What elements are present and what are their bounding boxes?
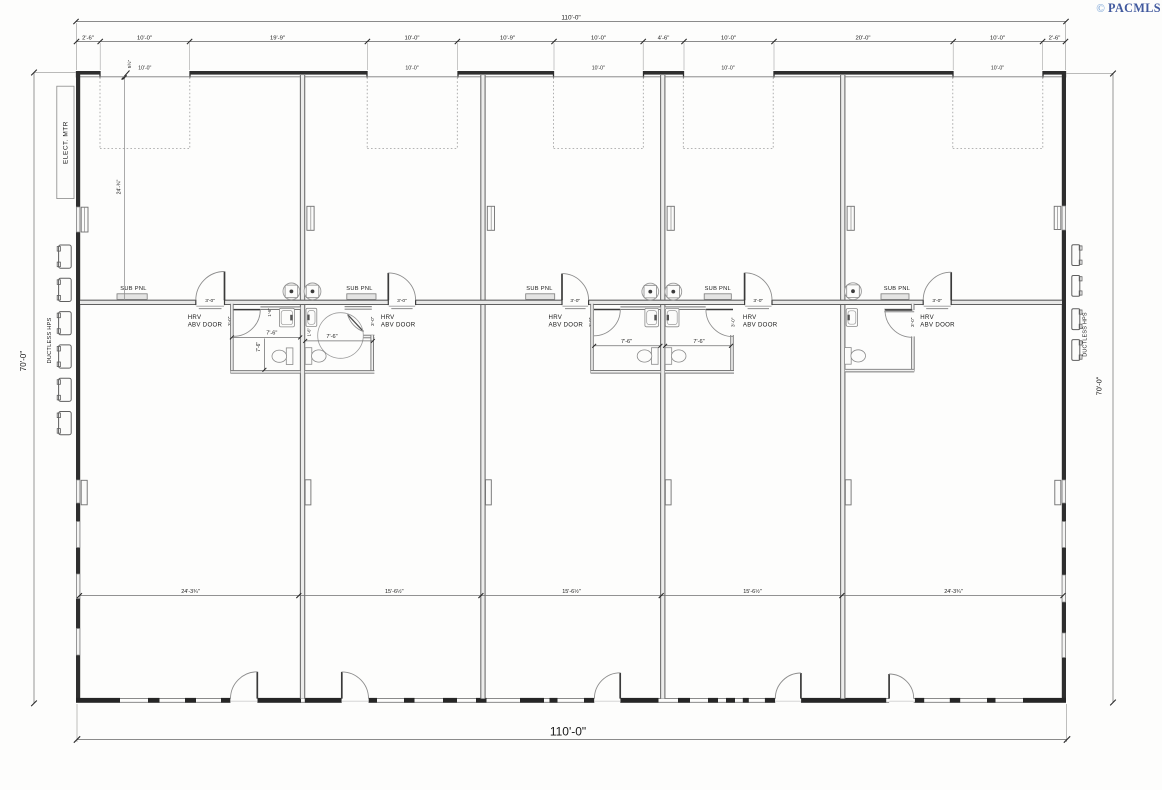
bathroom 5 door [885,310,912,337]
rotated 3'-0" labels at bathroom door jambs [227,316,915,327]
interior unit width labels [181,588,963,595]
svg-text:10'-0": 10'-0" [137,35,152,41]
svg-text:SUB PNL: SUB PNL [346,286,372,292]
svg-text:10'-0": 10'-0" [405,66,418,72]
right dimension line 70'-0" [1066,71,1116,706]
svg-text:ELECT. MTR: ELECT. MTR [63,121,70,164]
svg-text:15'-6½": 15'-6½" [562,588,581,595]
left wall interior panel marker upper [81,207,88,232]
svg-text:HRV: HRV [743,314,757,321]
svg-text:10'-0": 10'-0" [991,66,1004,72]
bathroom 2 door open leaf [348,314,364,331]
bathroom 1 height dimension 7'-6" [256,339,266,372]
svg-text:5½": 5½" [126,59,133,68]
bathroom 4 toilet [665,348,686,365]
interior unit width dimension line [77,593,1065,598]
bathroom block B outline unit3 side [591,304,661,373]
svg-text:ABV DOOR: ABV DOOR [549,322,584,329]
svg-text:3'-0": 3'-0" [570,298,580,304]
unit entry doors with swing arcs [196,272,951,301]
svg-text:3'-0": 3'-0" [731,317,736,327]
overall top dimension line 110'-0" [73,15,1068,25]
left wall window markers [76,207,79,655]
svg-text:PACMLS: PACMLS [1108,1,1161,15]
bathroom 5 toilet [845,348,866,365]
svg-text:10'-0": 10'-0" [592,66,605,72]
svg-text:SUB PNL: SUB PNL [526,286,552,292]
bathroom 3 door [594,310,620,336]
bathroom 4 width dimension 7'-6" [663,339,733,348]
recess width labels 10'-0" [138,66,1004,72]
top dimension extension line right [1065,23,1067,70]
svg-text:ABV DOOR: ABV DOOR [188,322,223,329]
svg-text:HRV: HRV [381,314,395,321]
svg-text:3'-0": 3'-0" [370,316,375,326]
svg-text:DUCTLESS HPS: DUCTLESS HPS [1082,312,1088,357]
5-1/2 inch wall offset label [122,59,133,79]
svg-text:SUB PNL: SUB PNL [884,286,910,292]
HRV ABV DOOR labels [188,314,955,329]
bottom wall door opening thresholds [231,698,914,703]
svg-text:3'-0": 3'-0" [932,298,942,304]
entry door sills [196,306,950,308]
bathroom 2 width dimension 7'-6" [303,334,375,343]
top segmented dimension line [74,39,1068,44]
svg-text:4'-6": 4'-6" [658,35,670,41]
svg-text:1'-6": 1'-6" [307,328,312,337]
ductless heat pumps left [57,245,71,435]
right wall interior panel marker lower [1055,480,1061,505]
entry door 3'-0" labels [205,298,942,304]
top dimension extension ticks to wall [100,43,1042,70]
bathroom block A outline unit2 side [305,307,375,374]
recessed entry alcoves dashed outlines [100,78,1043,149]
svg-text:70'-0": 70'-0" [1095,376,1104,395]
bathroom block A outline unit1 side [231,304,301,374]
bathroom 3 width dimension 7'-6" [592,339,662,348]
svg-text:19'-9": 19'-9" [270,35,285,41]
svg-text:HRV: HRV [920,314,934,321]
unit 1 vertical dimension 24'-3/4" [117,75,127,300]
svg-text:70'-0": 70'-0" [19,351,28,372]
bathroom 5 outline [845,304,914,372]
svg-text:DUCTLESS HPS: DUCTLESS HPS [47,317,53,363]
svg-text:10'-0": 10'-0" [138,66,151,72]
left wall interior panel marker lower [81,480,87,505]
bathroom 4 door [706,310,733,337]
svg-text:7'-6": 7'-6" [326,334,337,340]
top exterior wall segments [76,71,1066,75]
bathroom 5 sink [846,309,857,327]
svg-text:7'-6": 7'-6" [266,331,277,337]
bottom wall heavy segments [76,698,1066,703]
mid horizontal wall [80,300,1062,304]
svg-text:110'-0": 110'-0" [561,15,580,22]
svg-text:10'-0": 10'-0" [591,35,606,41]
svg-text:10'-0": 10'-0" [404,35,419,41]
svg-text:7'-6": 7'-6" [693,339,704,345]
top wall end caps at recesses [77,71,1066,78]
svg-text:15'-6½": 15'-6½" [385,588,404,595]
svg-text:3'-0": 3'-0" [205,298,215,304]
svg-text:3'-0": 3'-0" [910,317,915,327]
svg-text:24'-3¾": 24'-3¾" [181,589,200,595]
svg-text:3'-0": 3'-0" [753,298,763,304]
right exterior wall [1062,71,1066,703]
svg-text:ABV DOOR: ABV DOOR [920,322,955,329]
svg-text:ABV DOOR: ABV DOOR [381,322,416,329]
unit divider walls [300,75,845,699]
storefront line along top (inner wall face) [80,76,1062,78]
bathroom 1 door [234,310,261,337]
bathroom 2 toilet [305,348,326,365]
svg-text:10'-0": 10'-0" [721,35,736,41]
svg-text:7'-6": 7'-6" [256,342,262,352]
svg-text:10'-9": 10'-9" [500,35,515,41]
svg-text:110'-0": 110'-0" [550,725,586,739]
svg-text:15'-6½": 15'-6½" [743,588,762,595]
bathroom 2 sink [306,308,317,326]
svg-text:1'-6": 1'-6" [267,308,272,317]
bathroom 2 turning circle [318,313,364,359]
bathroom block B outline unit4 side [665,307,734,373]
svg-text:7'-6": 7'-6" [621,339,632,345]
bathroom 3 toilet [637,348,658,365]
bathroom 1 toilet [272,348,293,365]
left exterior wall [76,71,80,703]
right wall interior panel marker upper [1054,206,1061,229]
ductless heat pumps right [1072,245,1082,361]
svg-text:HRV: HRV [549,314,563,321]
svg-text:2'-6": 2'-6" [82,35,94,41]
top dimension labels [82,35,1060,41]
svg-text:10'-0": 10'-0" [721,66,734,72]
svg-text:2'-6": 2'-6" [1049,35,1061,41]
svg-text:HRV: HRV [188,314,202,321]
svg-text:20'-0": 20'-0" [855,35,870,41]
svg-text:24'-3¾": 24'-3¾" [944,589,963,595]
bathroom 1 sink [279,308,294,327]
left dimension line 70'-0" [19,70,76,706]
svg-text:ABV DOOR: ABV DOOR [743,322,778,329]
bottom entry doors with swing arcs [231,672,914,699]
svg-text:SUB PNL: SUB PNL [705,286,731,292]
bottom dimension extension lines [77,704,1067,742]
electrical meter box [57,86,74,198]
bottom overall dimension line 110'-0" [74,725,1070,743]
mid wall door jamb stubs [196,300,951,306]
bathroom 1 width dimension 7'-6" [230,331,302,340]
top dimension extension line left [76,23,78,70]
svg-text:10'-0": 10'-0" [990,35,1005,41]
svg-text:3'-0": 3'-0" [397,298,407,304]
right wall window markers [1062,206,1065,658]
SUB PNL labels and panels [117,286,910,299]
bathroom 4 sink [665,308,679,326]
svg-text:©: © [1096,3,1105,15]
divider wall panel markers lower [305,480,851,505]
bathroom 3 sink [645,308,659,326]
svg-text:24'-¾": 24'-¾" [117,180,123,195]
PACMLS watermark [1096,1,1161,15]
bottom exterior wall base lines [76,699,1066,703]
water heaters [283,283,861,300]
divider wall panel markers upper [307,206,854,230]
